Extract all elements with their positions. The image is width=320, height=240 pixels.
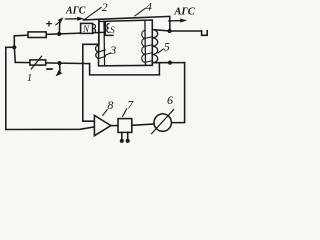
terminal - flag <box>59 63 61 71</box>
amplifier 8 <box>94 115 111 135</box>
resistor 1 rheostat <box>30 60 46 65</box>
svg-text:4: 4 <box>146 0 152 13</box>
coil at N pole <box>93 24 95 33</box>
wire top rail 4 <box>83 16 169 31</box>
leader 2 <box>85 7 102 19</box>
svg-text:N: N <box>82 24 90 34</box>
wire under-core <box>90 63 160 75</box>
winding 5 <box>152 30 157 63</box>
resistor R top <box>28 32 46 38</box>
node left junction <box>13 36 15 48</box>
svg-text:7: 7 <box>127 97 134 111</box>
svg-text:S: S <box>110 26 115 36</box>
svg-text:АГС: АГС <box>173 7 195 18</box>
slash through circle 6 <box>152 110 174 134</box>
terminal hook output <box>202 31 208 36</box>
node minus junction <box>57 61 61 65</box>
leader 4 <box>135 8 146 16</box>
wire box7 to circle6 <box>132 124 155 125</box>
leader 5 <box>158 49 163 53</box>
label minus <box>46 68 53 70</box>
rheostat slash <box>31 56 41 69</box>
wire branch1 top <box>14 32 102 35</box>
core 2 outer rectangle <box>99 20 153 66</box>
svg-text:2: 2 <box>102 0 108 14</box>
node plus junction <box>57 32 61 36</box>
wire left outer <box>5 47 7 129</box>
arrow АГС left <box>65 18 77 20</box>
core right limb inner edge <box>144 20 147 65</box>
svg-text:6: 6 <box>167 93 173 107</box>
svg-text:8: 8 <box>107 98 113 112</box>
magnet pole S box <box>105 22 113 35</box>
wire amp to box7 <box>111 125 118 127</box>
wire bottom rail <box>6 127 95 130</box>
coil at S pole <box>107 24 109 33</box>
wire from top rail to amplifier <box>83 19 99 121</box>
generator 6 circle <box>154 114 171 131</box>
core left limb inner edge <box>103 21 106 65</box>
contact dot left <box>120 139 124 143</box>
svg-text:АГС: АГС <box>65 6 86 17</box>
wire right side down <box>171 63 184 123</box>
leader 8 <box>103 110 107 116</box>
svg-text:3: 3 <box>109 43 116 57</box>
wire winding5 bottom lead <box>152 62 184 64</box>
winding 3 <box>95 45 98 58</box>
terminal + flag <box>58 23 60 34</box>
wire winding5 top lead <box>152 30 201 32</box>
arrow АГС right <box>169 20 181 22</box>
node tap bottom <box>168 61 172 65</box>
leader 3 <box>105 53 110 56</box>
svg-text:+: + <box>46 18 52 30</box>
svg-text:1: 1 <box>27 72 33 84</box>
contact dot right <box>126 139 130 143</box>
box7 contact legs <box>122 132 128 139</box>
svg-text:5: 5 <box>164 40 170 54</box>
leader 7 <box>123 109 127 117</box>
magnet pole N box <box>81 23 93 33</box>
wire branch2 <box>15 62 89 63</box>
vibrator 7 <box>118 119 132 133</box>
node tap top <box>168 29 172 33</box>
